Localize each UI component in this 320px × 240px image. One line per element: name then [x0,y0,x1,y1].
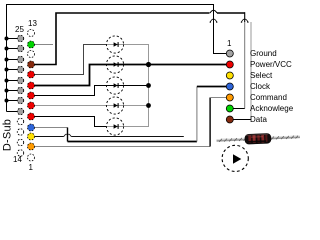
svg-text:D-Sub: D-Sub [2,119,14,151]
